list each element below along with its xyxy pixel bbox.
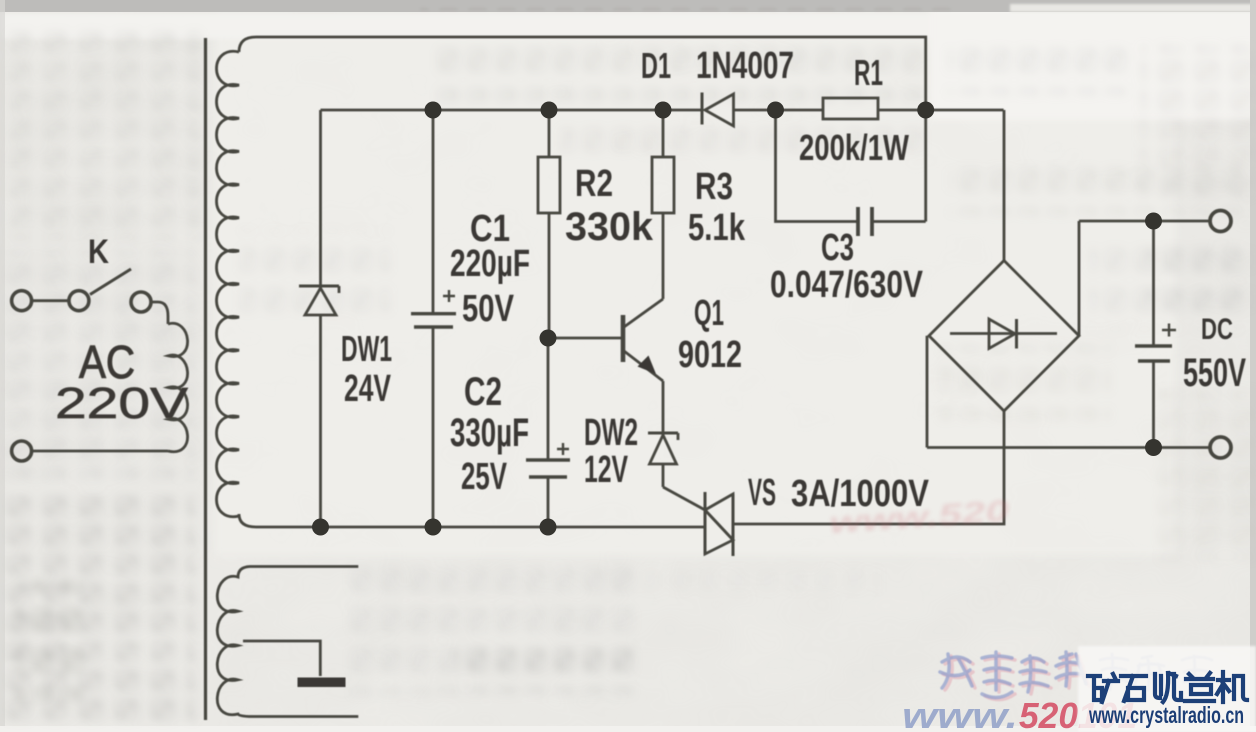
DC terminal - [1210, 437, 1231, 458]
wire: bottom bus to triac (left) already drawn; right side bus [733, 411, 1004, 524]
svg-text:www.: www. [902, 695, 1018, 732]
diode D1 [702, 93, 734, 127]
AC terminal 1 [12, 291, 32, 311]
right edge strip [1250, 0, 1256, 732]
svg-text:DW1: DW1 [341, 328, 392, 369]
svg-text:K: K [88, 233, 109, 271]
node bottom bus DW1 [312, 519, 329, 536]
resistor R2 [538, 110, 560, 338]
wire: terminal2 to primary bottom [32, 450, 168, 453]
transformer core [204, 38, 207, 720]
watermark: jiadian weixiu ziliao wang (7 CJK glyph scribbles) [940, 652, 1212, 700]
switch K throw [131, 292, 151, 312]
svg-text:DW2: DW2 [584, 412, 638, 454]
wire: top lead from secondary to top rail [239, 37, 926, 110]
lighter interior of schematic panel [215, 15, 1175, 555]
svg-text:25V: 25V [461, 456, 507, 498]
svg-text:220µF: 220µF [450, 243, 530, 285]
resistor R1 [823, 98, 878, 119]
wire: switch to primary top [152, 302, 169, 324]
capacitor C2 [526, 338, 570, 527]
svg-text:5.1k: 5.1k [688, 207, 746, 249]
wire: tertiary centre tap to ground [243, 641, 320, 676]
svg-text:50V: 50V [462, 288, 514, 330]
svg-text:330k: 330k [565, 205, 654, 249]
node -rail cap [1145, 439, 1162, 456]
svg-text:550V: 550V [1183, 351, 1246, 395]
node bottom bus C1 [425, 519, 442, 536]
resistor R3 [652, 110, 674, 299]
svg-text:1N4007: 1N4007 [696, 45, 794, 87]
capacitor C1 [411, 110, 456, 527]
ground [298, 678, 346, 688]
watermark: www.520101 red url [902, 695, 1137, 732]
node bus/D1-R1 [767, 102, 784, 119]
switch K pole [69, 291, 89, 311]
wire: DW1 branch vertical [319, 110, 322, 527]
wire: positive output rail [1079, 220, 1210, 223]
top grey band [0, 0, 1256, 12]
zener DW2 [648, 433, 678, 487]
switch K arm [90, 269, 131, 295]
bridge rectifier [929, 261, 1079, 412]
bottom edge light [0, 726, 1256, 732]
transformer tertiary winding (lower) [217, 567, 358, 717]
wire: main top bus [321, 109, 1004, 112]
node bottom bus C2 [540, 519, 557, 536]
svg-text:24V: 24V [344, 368, 391, 410]
watermark: kuangshi shouyinji logo (5 CJK glyphs drawn) [1088, 672, 1247, 702]
node base/R2-C2 [540, 330, 557, 347]
wire: bridge left to negative rail [926, 336, 929, 448]
DC terminal + [1210, 211, 1231, 232]
transformer secondary winding (upper) [217, 51, 240, 516]
svg-text:330µF: 330µF [450, 411, 529, 455]
svg-text:www.crystalradio.cn: www.crystalradio.cn [1088, 702, 1244, 728]
node bus/R3 [655, 102, 672, 119]
wire: negative output rail [927, 446, 1210, 449]
triac VS [705, 492, 733, 556]
transistor Q1 [548, 299, 663, 433]
svg-text:C2: C2 [464, 370, 502, 414]
svg-text:VS: VS [748, 472, 776, 514]
svg-text:R2: R2 [575, 163, 613, 205]
wire: gate lead to triac [663, 487, 705, 510]
svg-text:200k/1W: 200k/1W [799, 127, 909, 168]
svg-text:DC: DC [1201, 313, 1233, 346]
DC filter capacitor [1135, 221, 1176, 448]
svg-text:Q1: Q1 [694, 292, 724, 333]
svg-text:C3: C3 [821, 227, 854, 269]
svg-text:R3: R3 [695, 166, 733, 208]
node bus/C1 [425, 102, 442, 119]
wire: bridge right up [1078, 221, 1081, 336]
transformer primary winding [168, 323, 188, 451]
wire terminal1 to switch [32, 299, 69, 302]
AC terminal 2 [12, 441, 32, 461]
capacitor C3 loop [776, 110, 926, 236]
svg-text:220V: 220V [55, 379, 189, 428]
svg-text:9012: 9012 [678, 334, 742, 376]
node bus/R1-C3 [917, 102, 934, 119]
node +rail cap [1145, 213, 1162, 230]
whitened patch behind crystalradio logo [1078, 646, 1256, 732]
svg-text:12V: 12V [584, 449, 628, 491]
svg-text:R1: R1 [854, 52, 883, 93]
zener DW1 [299, 286, 339, 315]
wire: bus to bridge top [1003, 110, 1006, 261]
wire: bottom lead of secondary into bottom bus [239, 514, 705, 527]
svg-text:0.047/630V: 0.047/630V [770, 264, 924, 306]
node bus/R2 [541, 102, 558, 119]
svg-text:D1: D1 [641, 45, 671, 86]
